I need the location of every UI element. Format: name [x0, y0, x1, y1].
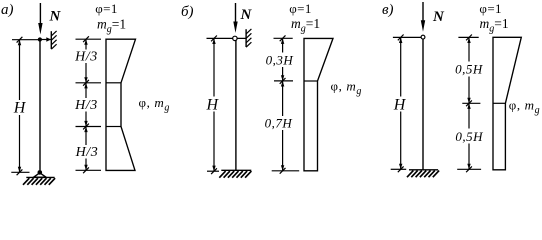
- ground hatching (v): [407, 171, 413, 178]
- H dimension line (v): [400, 37, 402, 96]
- svg-text:0,3H: 0,3H: [266, 52, 294, 67]
- ground hatching (b): [219, 171, 225, 178]
- top hinge node open circle (v): [421, 35, 425, 39]
- top node line (v): [393, 36, 421, 38]
- dimension ticks H (b): [211, 36, 217, 42]
- top extension line (a): [12, 39, 40, 41]
- svg-text:б): б): [181, 4, 194, 20]
- support wall (a): [50, 31, 52, 49]
- support wall (b): [245, 29, 247, 47]
- svg-text:0,7H: 0,7H: [265, 116, 293, 131]
- column (a): [39, 40, 41, 171]
- stiffness epure outline (a): [106, 39, 136, 170]
- svg-text:N: N: [49, 9, 62, 25]
- stiffness epure outline (v): [493, 37, 521, 170]
- epure tick lines (v): [458, 36, 478, 38]
- H/3 tick lines (a): [76, 38, 102, 40]
- svg-text:N: N: [432, 9, 445, 25]
- epure inner line (b): [304, 80, 318, 82]
- svg-text:в): в): [382, 2, 394, 18]
- ground hatching (a): [23, 178, 29, 185]
- column (b): [235, 38, 237, 170]
- bottom extension line (b): [207, 170, 219, 172]
- load arrow N (b): [235, 3, 237, 24]
- svg-text:φ=1: φ=1: [289, 1, 312, 16]
- wall hatching (b): [246, 42, 251, 47]
- svg-text:φ=1: φ=1: [479, 1, 502, 16]
- bottom extension line (v): [391, 168, 407, 170]
- epure inner line 2 (a): [106, 126, 121, 128]
- dimension ticks H (v): [398, 35, 404, 41]
- H/3 dimension line (a): [85, 39, 87, 49]
- fixed support ground line (b): [221, 169, 251, 171]
- fixed support ground line (v): [409, 169, 438, 171]
- wall hatching (a): [51, 44, 56, 49]
- pin triangle (a): [34, 173, 46, 177]
- epure dimension line (b): [282, 38, 284, 52]
- svg-text:H/3: H/3: [75, 145, 99, 160]
- top lateral support link (a): [40, 39, 51, 41]
- epure tick lines (b): [274, 37, 293, 39]
- top hinge node open circle (b): [233, 36, 237, 40]
- bottom extension line (a): [11, 171, 29, 173]
- svg-text:H: H: [393, 96, 407, 113]
- svg-text:H/3: H/3: [74, 50, 98, 65]
- dimension ticks H (a): [17, 37, 23, 43]
- H dimension line (b): [213, 38, 215, 96]
- H dimension line (a): [19, 40, 21, 100]
- svg-text:H: H: [13, 100, 27, 117]
- H/3 ticks (a): [83, 36, 89, 42]
- load arrow N (v): [422, 2, 424, 23]
- epure inner line (v): [493, 102, 505, 104]
- epure inner line 1 (a): [106, 82, 121, 84]
- svg-text:φ=1: φ=1: [95, 1, 118, 16]
- epure dimension line (v): [468, 37, 470, 61]
- svg-text:а): а): [1, 2, 14, 18]
- epure ticks (b): [280, 35, 286, 41]
- svg-text:0,5H: 0,5H: [455, 129, 483, 144]
- ground line (a): [26, 176, 54, 178]
- svg-text:H: H: [206, 96, 220, 113]
- load arrow N (a): [39, 3, 41, 26]
- svg-text:N: N: [240, 7, 253, 23]
- bottom pin hinge (a): [38, 170, 43, 175]
- top hinge node (a): [38, 37, 42, 41]
- svg-text:H/3: H/3: [74, 98, 98, 113]
- top node line (b): [207, 37, 247, 39]
- svg-text:0,5H: 0,5H: [455, 62, 483, 77]
- column (v): [422, 37, 424, 170]
- stiffness epure outline (b): [304, 38, 333, 170]
- epure ticks (v): [466, 35, 472, 41]
